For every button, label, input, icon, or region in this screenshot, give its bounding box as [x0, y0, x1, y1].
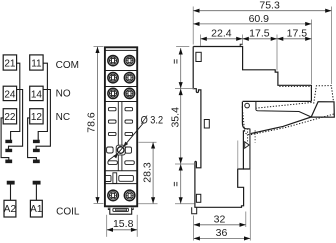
svg-text:12: 12 — [31, 112, 43, 123]
clip dotted handle — [314, 86, 334, 104]
clip dotted left edge — [242, 107, 244, 131]
left chain extension 46.6 — [176, 46, 189, 48]
hole row wing left — [107, 147, 114, 153]
corner nub top — [240, 44, 242, 46]
svg-text:Ø 3.2: Ø 3.2 — [141, 115, 164, 127]
terminal box 24 — [3, 86, 16, 100]
side body bottom line — [243, 100, 312, 102]
contact bar NC pole2 — [34, 140, 40, 142]
dim 17.5b line — [277, 38, 312, 40]
slot row5 left wide — [108, 161, 118, 165]
hole surround — [116, 145, 125, 155]
coil wire A1 — [35, 184, 37, 200]
hole row wing right — [125, 147, 131, 153]
clip dotted tongue edge a — [247, 129, 249, 143]
SIDE VIEW — [192, 44, 335, 214]
svg-text:NO: NO — [56, 89, 71, 100]
contact bar NO pole2 — [34, 149, 40, 151]
leader arrowhead upper — [123, 142, 128, 147]
slot row2 right — [125, 120, 133, 123]
hidden edge line 237.8 — [237, 141, 239, 170]
svg-text:21: 21 — [4, 58, 16, 69]
terminal box A2 — [4, 200, 17, 217]
left chain extension 164.0 — [175, 163, 196, 165]
clip triangle marker — [245, 142, 249, 148]
coil terminal bar A1 — [33, 181, 40, 184]
wire 12 to contact — [28, 118, 37, 160]
wire 22 to contact — [1, 118, 9, 160]
contact bar COM pole1 — [6, 160, 12, 163]
screw terminal row1 left — [108, 55, 118, 65]
extension line 242.5 — [242, 35, 244, 46]
bottom tab — [110, 208, 132, 215]
svg-text:NC: NC — [56, 112, 70, 123]
dim 15.8 extension left — [106, 215, 108, 237]
svg-text:17.5: 17.5 — [249, 28, 270, 40]
dim 35.4 chain line — [180, 48, 182, 204]
dim 36 line — [194, 237, 251, 239]
leader arrowhead lower — [113, 153, 118, 158]
svg-text:15.8: 15.8 — [113, 218, 134, 230]
terminal box 11 — [30, 55, 43, 70]
left chain extension 88.6 — [175, 88, 194, 90]
svg-text:A1: A1 — [30, 204, 43, 215]
hole 3.2 — [117, 147, 124, 154]
side body left and lower outline — [193, 47, 243, 208]
front divider 5 — [105, 183, 137, 185]
extension line 331.5 — [331, 7, 333, 85]
side slot low — [196, 194, 200, 202]
clip inner ridge — [256, 102, 311, 117]
dim 15.8 line — [107, 229, 138, 231]
equal mark bottom — [174, 182, 177, 186]
terminal box 12 — [30, 109, 43, 124]
side slot mid — [204, 120, 209, 129]
clip tongue — [243, 130, 250, 169]
screw terminal row2 right — [124, 73, 134, 83]
slot row1 left — [108, 108, 116, 111]
extension line 200.5 — [200, 35, 202, 47]
svg-text:22: 22 — [4, 112, 16, 123]
screw terminal row3 left — [108, 88, 118, 98]
svg-text:75.3: 75.3 — [259, 0, 280, 11]
dim 32 line — [194, 224, 246, 226]
channel line left — [117, 102, 119, 171]
svg-text:36: 36 — [216, 227, 228, 239]
svg-text:14: 14 — [31, 89, 43, 100]
dim 60.9 line — [193, 23, 311, 25]
dotted hidden edge under step — [279, 86, 311, 88]
side body upper outline — [193, 47, 311, 102]
front divider 4 — [105, 170, 137, 172]
channel line right — [121, 102, 123, 171]
dim 78.6 extension bottom — [94, 202, 104, 204]
wire 21 to contact — [11, 63, 20, 140]
contact bar COM pole2 — [34, 160, 40, 163]
clip dotted tongue edge b — [254, 130, 256, 142]
svg-text:17.5: 17.5 — [287, 28, 308, 40]
side bottom foot — [192, 207, 197, 213]
screw terminal row3 right — [124, 88, 134, 98]
wire 11 to contact — [38, 63, 47, 140]
dim 28.3 line — [152, 142, 154, 203]
extension line 311.5 — [311, 20, 313, 85]
wire 14 to contact — [36, 90, 50, 150]
svg-text:78.6: 78.6 — [85, 112, 97, 133]
dim 22.4 line — [201, 38, 243, 40]
screw terminal row2 left — [108, 73, 118, 83]
clip solid outline — [242, 102, 334, 134]
contact bar NO pole1 — [6, 149, 12, 151]
svg-text:COIL: COIL — [56, 206, 80, 217]
dim 75.3 line — [193, 10, 331, 12]
svg-text:COM: COM — [56, 60, 79, 71]
dim 17.5a line — [243, 38, 278, 40]
front divider 3 — [105, 101, 137, 103]
svg-text:24: 24 — [4, 89, 16, 100]
clip pivot — [245, 103, 250, 108]
screw terminal row1 right — [124, 55, 134, 65]
terminal box A1 — [30, 200, 43, 217]
coil wire A2 — [10, 184, 12, 200]
terminal box 21 — [3, 55, 16, 70]
clip dotted bottom — [245, 114, 335, 135]
terminal box 22 — [3, 109, 16, 124]
dim 15.8 extension right — [136, 215, 138, 237]
slot row1 right — [125, 108, 133, 111]
extension line 277 — [276, 35, 278, 71]
svg-text:32: 32 — [214, 214, 226, 226]
svg-text:A2: A2 — [4, 204, 17, 215]
FRONT VIEW — [105, 47, 137, 206]
lower cell small slot — [105, 175, 111, 181]
svg-text:11: 11 — [31, 58, 42, 69]
front divider 2 — [105, 86, 137, 88]
bottom tab slot — [113, 208, 128, 211]
clip dotted ridge — [256, 102, 314, 108]
front divider 1 — [105, 70, 137, 72]
lower cell mid rect — [113, 173, 117, 184]
svg-text:35.4: 35.4 — [170, 107, 182, 128]
dim 28.3 extension bottom — [138, 203, 158, 205]
slot row5 right wide — [125, 161, 135, 165]
contact bar NC pole1 — [6, 140, 12, 142]
dim 78.6 line — [97, 47, 99, 204]
left chain extension 203.7 — [175, 203, 195, 205]
screw terminal bottom right — [124, 190, 135, 201]
front inner top line — [105, 49, 137, 51]
svg-text:60.9: 60.9 — [249, 13, 270, 25]
extension line left 193 — [192, 7, 194, 45]
extension 245.8 bottom — [245, 212, 247, 228]
svg-text:28.3: 28.3 — [142, 162, 154, 183]
coil terminal bar A2 — [7, 181, 14, 184]
slot row3 left — [108, 132, 116, 135]
leader line dia 3.2 — [108, 123, 144, 161]
front body outline — [105, 47, 137, 206]
lower cell wide slot — [119, 175, 134, 181]
slot row3 right — [125, 132, 133, 135]
dim 78.6 extension top — [94, 45, 104, 47]
wire 24 to contact — [9, 90, 23, 150]
bottom tab slot inner — [116, 209, 127, 211]
equal mark top — [174, 59, 177, 63]
side slot top — [196, 52, 201, 61]
terminal box 14 — [30, 86, 43, 100]
dim 28.3 extension top — [139, 141, 157, 143]
svg-text:22.4: 22.4 — [211, 28, 232, 40]
extension 250.3 long — [249, 129, 251, 241]
slot row2 left — [108, 120, 116, 123]
screw terminal bottom left — [108, 190, 119, 201]
extension 193.6 bottom — [193, 216, 195, 241]
